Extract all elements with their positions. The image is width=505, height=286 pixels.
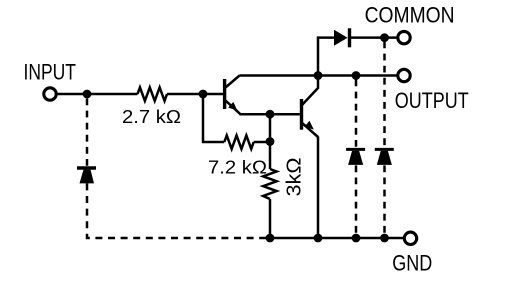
node K junction dot (D3 at ground rail) bbox=[380, 234, 389, 243]
wire: INPUT to resistor R1 bbox=[57, 93, 137, 96]
diode D1 bbox=[334, 28, 351, 47]
node F junction dot (COMMON line) bbox=[380, 33, 389, 42]
node J junction dot (D2 at ground rail) bbox=[352, 234, 361, 243]
resistor R1 2.7 kOhm bbox=[138, 87, 168, 101]
svg-text:7.2 kΩ: 7.2 kΩ bbox=[208, 158, 267, 178]
svg-text:OUTPUT: OUTPUT bbox=[395, 88, 469, 113]
terminal GND bbox=[404, 232, 416, 244]
node C junction dot bbox=[266, 137, 275, 146]
terminal OUTPUT bbox=[398, 69, 410, 81]
node D junction dot bbox=[266, 110, 275, 119]
diode D3 bbox=[375, 149, 394, 165]
dashed wire: node G down to diode D2 bbox=[355, 80, 358, 149]
wire: Q1 emitter to Q2 base bbox=[240, 113, 300, 116]
wire: R3 to ground rail bbox=[269, 199, 272, 238]
node A junction dot bbox=[83, 90, 92, 99]
diode D2 bbox=[346, 149, 365, 165]
resistor R2 7.2 kOhm bbox=[224, 135, 253, 149]
node B junction dot bbox=[199, 90, 208, 99]
wire: collector rail to OUTPUT bbox=[240, 74, 397, 77]
diode D4 bbox=[77, 168, 96, 183]
wire: node B down to resistor R2 bbox=[203, 94, 224, 142]
wire: R1 to Q1 base bbox=[167, 93, 223, 96]
terminal INPUT bbox=[44, 88, 56, 100]
wire: Q2 emitter to ground rail bbox=[317, 137, 320, 239]
node H junction dot (R3 at ground rail) bbox=[266, 234, 275, 243]
dashed wire: node A down to diode D4 bbox=[86, 99, 89, 167]
dashed wire: D2 to ground rail bbox=[355, 165, 358, 236]
dashed wire: D4 to ground rail corner bbox=[87, 183, 270, 238]
terminal COMMON bbox=[398, 31, 410, 43]
wire: node D down to resistor R3 bbox=[269, 114, 272, 169]
transistor Q1 bbox=[225, 76, 241, 115]
svg-text:GND: GND bbox=[392, 251, 432, 276]
node G junction dot (output rail) bbox=[352, 71, 361, 80]
wire: R2 to node C bbox=[254, 141, 270, 144]
node E junction dot (collector rail) bbox=[314, 71, 323, 80]
svg-text:3kΩ: 3kΩ bbox=[284, 157, 306, 196]
dashed wire: D3 to ground rail bbox=[383, 165, 386, 236]
svg-text:COMMON: COMMON bbox=[365, 3, 455, 28]
resistor R3 3 kOhm bbox=[263, 169, 277, 199]
wire: D1 to COMMON terminal bbox=[351, 36, 397, 39]
dashed wire: node F down to diode D3 bbox=[383, 42, 386, 149]
wire: rail up to diode D1 bbox=[318, 38, 335, 76]
svg-text:INPUT: INPUT bbox=[24, 60, 77, 85]
svg-text:2.7 kΩ: 2.7 kΩ bbox=[122, 107, 181, 127]
node I junction dot (Q2 emitter at ground rail) bbox=[314, 234, 323, 243]
wire: ground rail bbox=[270, 237, 403, 240]
transistor Q2 bbox=[302, 76, 319, 138]
